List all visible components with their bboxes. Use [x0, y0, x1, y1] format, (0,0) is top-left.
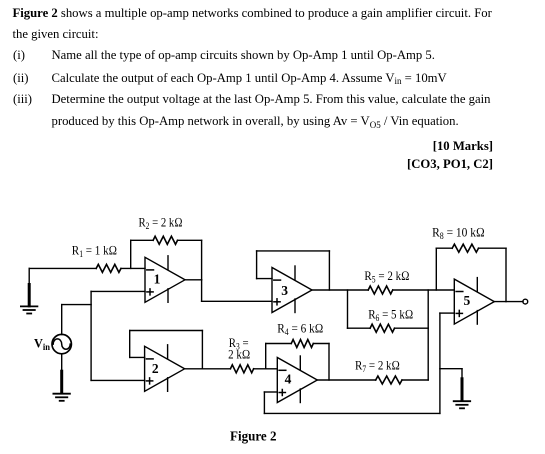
resistor R7: [376, 376, 402, 384]
R8 feedback left vertical: [435, 248, 437, 290]
op-amp U1 triangle: [145, 256, 185, 302]
svg-text:2 kΩ: 2 kΩ: [228, 346, 250, 361]
item (iii) line 2: [52, 114, 459, 129]
R8 feedback top left wire: [436, 247, 452, 249]
wire R3 to op4 - input: [254, 368, 278, 370]
junction vertical R5/R6/R7 node: [427, 290, 429, 380]
svg-text:Vin: Vin: [34, 335, 50, 352]
source Vin (AC): [52, 334, 71, 353]
R6 branch left vertical: [347, 290, 349, 328]
op3 feedback right vertical: [328, 251, 330, 290]
wire Vin to input bus: [62, 304, 91, 306]
svg-text:R7 = 2 kΩ: R7 = 2 kΩ: [355, 358, 400, 375]
ground G1 (left input ground): [21, 268, 38, 313]
ground G3 stem: [461, 369, 463, 379]
R4 feedback left vertical: [265, 344, 267, 369]
svg-text:R6 = 5 kΩ: R6 = 5 kΩ: [368, 306, 413, 323]
op-amp U4 triangle: [277, 356, 317, 403]
op3 feedback top wire: [257, 250, 330, 252]
R8 feedback right vertical: [505, 248, 507, 301]
svg-text:R1 = 1 kΩ: R1 = 1 kΩ: [72, 243, 117, 260]
wire op1 output down: [201, 280, 203, 302]
ground branch wire: [440, 368, 462, 370]
op2 feedback top wire: [130, 330, 203, 332]
svg-text:R8 = 10 kΩ: R8 = 10 kΩ: [432, 224, 485, 241]
resistor R5: [368, 286, 393, 294]
resistor R4: [291, 340, 313, 348]
label R3 = 2 kOhm (two lines): [228, 335, 250, 361]
wire op1 output to op3 + input: [202, 300, 272, 302]
marks line: [433, 139, 493, 154]
svg-text:R5 = 2 kΩ: R5 = 2 kΩ: [364, 268, 409, 285]
R4 feedback top right wire: [313, 343, 329, 345]
resistor R8: [452, 244, 478, 252]
op4 + input wire: [264, 391, 277, 393]
op5 output wire: [494, 301, 523, 303]
R8 feedback top right wire: [479, 247, 507, 249]
svg-text:R4 = 6 kΩ: R4 = 6 kΩ: [277, 320, 323, 337]
svg-text:4: 4: [285, 372, 292, 387]
wire ground to R1: [29, 267, 96, 269]
item (iii) line 1: [13, 92, 32, 107]
svg-text:R2 = 2 kΩ: R2 = 2 kΩ: [139, 215, 183, 232]
feedback wire top left: [131, 239, 153, 241]
op-amp U3 triangle: [272, 266, 312, 313]
wire R1 to op-amp 1 inverting input: [121, 267, 145, 269]
svg-text:1: 1: [154, 272, 161, 287]
R6 branch right wire: [395, 327, 429, 329]
wire Vin top: [61, 305, 63, 335]
resistor R3: [230, 365, 253, 373]
ground G2 (below Vin): [53, 371, 70, 401]
op4 + loop left vertical: [263, 392, 265, 413]
feedback wire left vertical (node at R1/op1- ): [130, 240, 132, 268]
op4 output wire to R7: [317, 379, 375, 381]
op-amp U5 triangle: [454, 278, 494, 325]
op1 + input wire: [91, 290, 145, 292]
paragraph line 1: [13, 6, 492, 21]
op1 output wire: [185, 279, 202, 281]
svg-text:5: 5: [464, 293, 471, 308]
bottom bus wire: [264, 412, 440, 414]
wire R5 to op5 - input: [393, 289, 455, 291]
op3 feedback left vertical: [256, 251, 258, 279]
op3 output wire to R5: [312, 289, 368, 291]
svg-text:3: 3: [281, 283, 288, 298]
op2 + input wire: [91, 379, 145, 381]
R4 feedback top left wire: [266, 343, 292, 345]
R6 branch left wire: [348, 327, 371, 329]
item (i): [13, 48, 25, 63]
wire Vin bottom: [61, 354, 63, 372]
paragraph line 2: [13, 27, 99, 42]
svg-text:2: 2: [152, 361, 159, 376]
resistor R1: [96, 264, 121, 272]
op2 feedback left vertical: [129, 331, 131, 358]
wire R7 to junction: [402, 379, 428, 381]
bottom bus right vertical up to op5 +: [439, 313, 441, 413]
op2 - input wire: [130, 356, 145, 358]
ground G3: [454, 379, 471, 409]
svg-text:Figure 2: Figure 2: [230, 428, 277, 443]
feedback wire top right: [178, 239, 202, 241]
item (ii): [13, 71, 29, 86]
output terminal: [523, 299, 528, 304]
resistor R6: [370, 324, 394, 332]
op-amp U2 triangle: [145, 345, 185, 392]
feedback wire right vertical to op1 output: [201, 240, 203, 279]
op2 feedback right vertical: [201, 331, 203, 369]
vertical input bus Vin node: [90, 291, 92, 380]
op2 output wire to R3: [185, 368, 231, 370]
R4 feedback right vertical: [328, 344, 330, 381]
CO line: [407, 157, 493, 172]
op3 - input wire: [257, 278, 272, 280]
resistor R2: [153, 236, 177, 244]
op5 + input wire: [440, 312, 454, 314]
